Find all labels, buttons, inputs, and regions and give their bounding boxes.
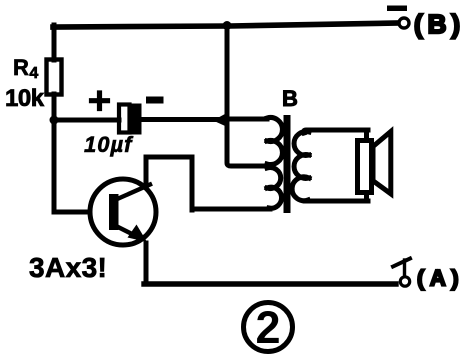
figure number circle 2 [244,303,293,352]
wire R4 bottom [52,94,57,121]
capacitor C 10uf right plate [132,104,142,135]
wire collector step [146,157,192,210]
terminal A circle [400,277,409,286]
wire cap left [54,118,119,123]
wire cap right [141,117,226,122]
terminal B minus bar [387,6,407,12]
capacitor C 10uf left plate [119,105,130,133]
transformer T1 core [284,115,291,213]
resistor R4 [47,60,62,95]
wire left vertical to base [54,120,111,212]
label plus [92,93,108,109]
svg-text:R4: R4 [13,55,38,82]
wire emitter down [144,243,149,284]
svg-text:(A): (A) [417,266,464,291]
transistor Q1 body circle [90,179,156,245]
wire primary left side [227,118,266,166]
terminal B circle [399,18,409,28]
transistor Q1 emitter line [113,225,140,239]
terminal A crossbar [393,259,410,267]
node junction rail [223,21,232,30]
svg-text:2: 2 [255,302,280,353]
node junction left [50,116,59,125]
wire top rail [53,23,398,27]
svg-text:B: B [282,86,298,111]
svg-text:3Ax3!: 3Ax3! [29,252,107,283]
transistor Q1 base bar [109,194,119,230]
transformer T1 secondary winding [292,130,368,201]
transformer T1 primary winding bottom [195,168,282,210]
transformer T1 primary winding top [227,117,282,164]
svg-text:10µf: 10µf [84,132,134,157]
wire mid vertical from rail [225,25,230,118]
terminal A stem [403,260,406,276]
label minus [146,97,164,104]
speaker LS horn [373,132,391,194]
speaker LS frame right side [364,130,369,201]
svg-text:(B): (B) [414,9,465,39]
wire bottom rail [144,281,396,286]
speaker LS driver [358,141,372,193]
transistor Q1 collector line [115,185,150,201]
svg-text:10k: 10k [5,85,45,112]
node arrow junction [213,112,230,128]
wire left drop to R4 [52,25,57,60]
transistor Q1 emitter arrow [128,225,148,243]
